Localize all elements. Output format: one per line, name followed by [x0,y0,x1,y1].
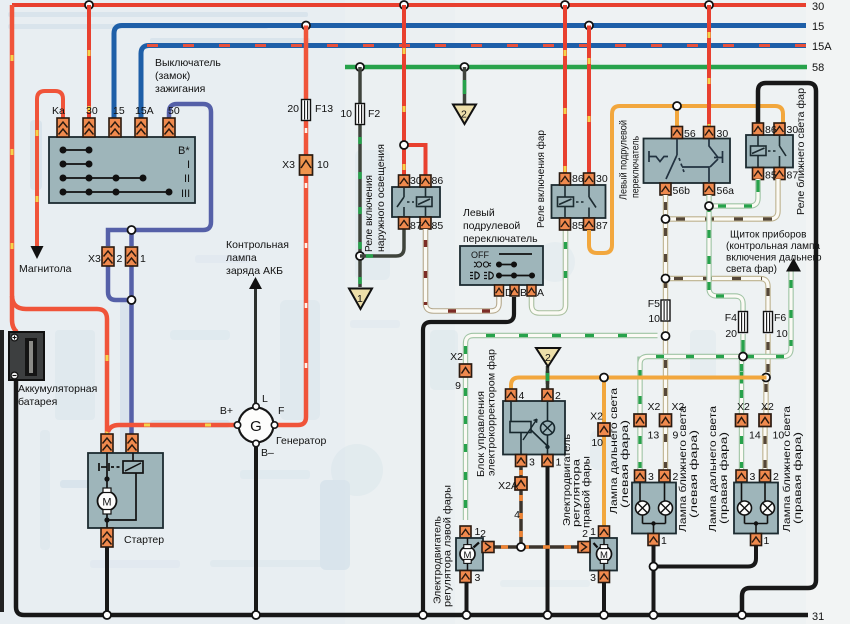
wire bus30 to relay 86 [563,5,567,173]
wire horizontal y356 to left lamp and indicator [640,271,791,364]
corrector pin 4 [506,389,517,401]
ext-light relay pin 87 [399,217,410,229]
connector X3 10 [300,155,313,175]
left lamp internal wires [640,483,666,534]
connector X2 10 [759,414,771,427]
wire between motor pins 2 (dark with orange dashes) [494,545,579,549]
bus 15 [114,26,806,119]
left motor box [456,538,483,571]
svg-text:F2: F2 [368,108,380,120]
svg-text:85: 85 [765,170,777,182]
svg-text:2: 2 [555,390,561,402]
wire generator B+ to starter [108,425,236,432]
battery plus terminal [11,334,18,341]
low beam relay pin 85 [753,168,764,180]
left lamp pin 3 [635,470,646,482]
headlight relay pin 30 [584,173,595,185]
wire generator L to charge lamp [254,289,257,403]
svg-text:Реле включения фар: Реле включения фар [535,130,547,228]
starter solenoid contact [99,463,122,471]
svg-text:50: 50 [168,105,180,117]
generator circle [239,408,274,443]
svg-text:A: A [537,287,544,299]
ignition contact row B* [60,147,171,194]
svg-text:30: 30 [596,173,608,185]
svg-text:D: D [505,287,513,299]
svg-text:Реле ближнего света фар: Реле ближнего света фар [795,88,807,215]
node bus30 pin30 [85,1,93,9]
right lamp bulb high beam [738,501,752,515]
svg-text:20: 20 [725,328,737,340]
wire 56a branch to low beam relay 85 [709,179,758,206]
scan page edge [0,330,4,612]
svg-text:30: 30 [717,128,729,140]
node bus58 F2 [356,63,364,71]
low beam relay pin 30 [774,123,785,135]
wire 50 loop (indigo) [108,104,211,246]
wire branch to relay 87 [360,228,404,256]
left motor pin3 connector [460,571,471,583]
node X3 top [128,226,136,234]
headlight relay internals [558,186,597,218]
corrector box [503,401,565,455]
ignition switch pin 15A [135,118,147,137]
starter pin 1 (battery) [101,434,113,453]
left motor pin2 connector [482,542,494,553]
ignition switch pin 30 [83,118,95,137]
starter solenoid coil [123,461,143,473]
svg-text:лампа: лампа [226,252,257,264]
node bus30 dimmer [705,1,713,9]
connector X3 pin 2 [102,247,114,266]
right motor pin3 connector [599,571,610,583]
svg-text:X2: X2 [737,401,750,413]
connector X2 9 left [460,364,472,377]
corrector pin 3 [516,455,527,467]
wire bus30 to dimmer 30 [707,5,711,126]
svg-text:1: 1 [590,526,596,538]
fuse F2 [356,104,365,125]
svg-text:Магнитола: Магнитола [19,263,72,275]
svg-text:86: 86 [765,124,777,136]
wire bus30 to ext-light relay [400,1,408,9]
right lamp pin 3 [736,470,747,482]
battery body [9,332,44,380]
svg-text:III: III [181,188,190,200]
dimmer switch pin 56b [660,183,671,195]
wire generator B- to ground [254,446,258,613]
battery minus terminal [11,372,18,379]
svg-text:85: 85 [432,220,444,232]
svg-text:зажигания: зажигания [155,83,205,95]
corrector pin 1 [542,455,553,467]
fuse F5 [661,300,670,321]
ext-light relay internals [397,188,432,217]
right lamp pin 2 [760,470,771,482]
left lamp box [632,483,676,534]
svg-text:30: 30 [86,105,98,117]
svg-text:F13: F13 [315,103,333,115]
faint bleed-through texture (decorative) [8,12,716,587]
svg-text:15: 15 [113,105,125,117]
node bus15 F13 [302,22,310,30]
svg-text:Ka: Ka [52,105,65,117]
svg-text:30: 30 [787,124,799,136]
wire Ka to Magnitola [37,91,63,246]
wire F4 bottom to node [740,334,745,357]
node bus30 headlight relay [561,1,569,9]
light switch pin A [527,285,536,296]
svg-text:(правая фара): (правая фара) [792,432,804,524]
svg-text:Левый подрулевой: Левый подрулевой [618,120,630,200]
svg-text:Левый: Левый [463,207,495,219]
svg-text:G: G [250,418,262,435]
wire F5 node left to X2-9 and left motor pin1 [466,336,658,521]
svg-text:2: 2 [773,471,779,483]
ignition switch pin 50 [163,118,175,137]
wire 56b branch to relay 87 [666,179,779,219]
svg-text:20: 20 [287,103,299,115]
wire battery minus to ground bus [16,378,808,615]
wire bus58 through F2 down to triangle 1 [358,67,362,287]
svg-text:электрокорректором фар: электрокорректором фар [486,349,498,476]
svg-text:1: 1 [140,253,146,265]
headlight relay box [552,185,606,218]
wire black: relay 86 up over and down right edge to ground [742,83,816,613]
svg-text:(контрольная лампа: (контрольная лампа [726,241,820,252]
svg-text:правой фары: правой фары [581,456,593,528]
bus 58 [345,65,807,70]
svg-text:30: 30 [812,1,824,13]
svg-text:87: 87 [410,220,422,232]
svg-text:13: 13 [648,430,660,442]
ignition switch pin Ka [57,118,69,137]
svg-text:II: II [184,173,190,185]
node bus58 triangle2 [461,63,469,71]
headlight relay pin 86 [560,173,571,185]
right motor pin1 connector [599,526,610,538]
svg-text:X2A: X2A [498,480,518,492]
svg-text:F4: F4 [725,312,737,324]
wire ignition pin 30 [87,5,91,118]
wire triangle2 to corrector pin2 [546,366,550,389]
wire amber: relay87 over to low-beam relay 30 [589,106,783,253]
svg-text:3: 3 [648,471,654,483]
node 56a relay85 [705,202,713,210]
right lamp bulb low beam [761,501,775,515]
arrow to magnitola [31,246,44,259]
node F4 bottom [739,353,747,361]
svg-text:86: 86 [432,175,444,187]
corrector internals [510,401,548,455]
left lamp bulb high beam [636,501,650,515]
wire 56b branch to F6 [666,279,769,378]
svg-text:переключатель: переключатель [463,233,538,245]
svg-text:58: 58 [812,62,824,74]
svg-text:Реле включения: Реле включения [363,175,375,252]
svg-text:регулятора лэвой фары: регулятора лэвой фары [442,485,454,607]
svg-text:X2: X2 [648,401,661,413]
svg-text:Стартер: Стартер [124,534,164,546]
svg-text:87: 87 [787,170,799,182]
arrow to charge lamp [249,277,262,289]
fuse F4 [739,312,748,333]
wire bus58 to triangle 2 [463,67,467,104]
svg-text:15A: 15A [812,41,832,53]
svg-text:включения дальнего: включения дальнего [726,253,822,264]
svg-text:света фар): света фар) [726,263,777,275]
connector X2 9 [660,414,672,427]
wire bus30 to battery and starter [12,5,107,434]
svg-text:10: 10 [317,159,329,171]
parking light icon [474,262,491,267]
wire 56a down then right to F4 [709,195,743,312]
starter bottom pin [101,528,113,547]
low beam relay box [746,135,793,168]
left motor M symbol [467,538,469,570]
node X3 bottom [128,296,136,304]
svg-text:M: M [102,497,111,509]
generator terminals [253,403,259,409]
starter pin 2 (solenoid) [126,434,138,453]
svg-text:заряда АКБ: заряда АКБ [226,265,283,277]
svg-text:56b: 56b [673,185,691,197]
svg-text:14: 14 [749,430,761,442]
node amber joins F6 wire [762,374,770,382]
svg-text:Генератор: Генератор [276,435,326,447]
svg-text:B–: B– [261,447,274,459]
light switch box [460,246,543,285]
svg-text:батарея: батарея [18,396,57,408]
right lamp internal wires [742,483,768,534]
svg-text:B: B [520,287,527,299]
svg-text:I: I [187,159,190,171]
svg-text:4: 4 [514,509,520,521]
starter box [88,453,163,528]
wire amber X2-10 column to right motor pin1 [602,378,606,527]
node F2 branch [356,252,364,260]
svg-text:9: 9 [455,380,461,392]
headlight icon [470,272,493,279]
svg-text:2: 2 [545,352,551,364]
wire left lamp ground [652,546,656,613]
left lamp pin 2 [659,470,670,482]
svg-text:X3: X3 [282,159,295,171]
svg-text:2: 2 [673,471,679,483]
wire 56b down through F5 to left lamp pin2 [663,195,668,470]
left motor pin1 connector [460,526,471,538]
connector X3 pin 1 [126,247,138,266]
svg-text:F: F [278,405,284,417]
svg-text:4: 4 [519,390,525,402]
light switch pin B [510,285,519,296]
wire X2-13 column to left lamp pin3 [637,364,642,470]
low beam relay internals [751,136,787,167]
svg-text:Контрольная: Контрольная [226,239,289,251]
svg-text:(замок): (замок) [155,70,190,82]
svg-text:15: 15 [812,21,824,33]
wire corrector pin1 to ground [546,467,550,614]
right lamp bottom pin [751,534,762,546]
right motor M symbol [603,538,605,570]
connector X2 14 [736,414,748,427]
nodes on 56b wire [662,215,670,223]
svg-text:F6: F6 [774,312,786,324]
svg-text:10: 10 [591,437,603,449]
svg-text:(правая фара): (правая фара) [718,432,730,524]
light switch pin D [495,285,504,296]
svg-text:2: 2 [461,109,467,121]
left lamp bulb low beam [659,501,673,515]
svg-text:L: L [262,393,268,405]
ignition switch box [49,137,195,203]
svg-text:Щиток приборов: Щиток приборов [730,229,806,241]
wire right motor ground [602,583,606,614]
svg-text:30: 30 [410,175,422,187]
wire bus15 to F13 to generator F [277,26,306,426]
ext-light relay pin 30 [399,175,410,187]
wire overlay triangle2 wire over amber [546,371,550,384]
svg-text:X2: X2 [450,351,463,363]
svg-text:B+: B+ [220,405,233,417]
svg-text:86: 86 [572,173,584,185]
node relay coil branch [404,145,426,175]
wire amber corrector pin4 / X2-10 / F6-node [511,378,767,390]
svg-text:15A: 15A [135,105,154,117]
wire crossing overlay X2-14 over amber [740,371,743,384]
svg-text:3: 3 [529,457,535,469]
svg-text:10: 10 [340,108,352,120]
ext-light relay pin 86 [420,175,431,187]
svg-text:31: 31 [812,611,824,623]
right lamp box [734,483,778,534]
svg-text:(левая фара): (левая фара) [619,420,631,508]
connector X2 13 [634,414,646,427]
triangle connector 1 [349,289,372,310]
svg-text:85: 85 [572,220,584,232]
svg-text:56: 56 [684,128,696,140]
fuse F13 [302,100,311,121]
node amber to pin 56 [675,106,679,126]
svg-text:3: 3 [590,572,596,584]
indicator arrow (Shchitok priborov) [786,258,801,272]
svg-text:87: 87 [596,220,608,232]
left lamp bottom pin [648,534,659,546]
svg-text:B*: B* [178,145,190,157]
starter motor [98,492,117,511]
svg-text:1: 1 [764,535,770,547]
triangle connector 2 top [453,105,476,125]
wire switch A to headlight relay 85 (white/green) [532,230,566,313]
wire ext-light relay 85 to switch D (white/maroon) [426,229,500,311]
bus 15A [141,46,806,119]
dimmer box [644,139,731,184]
connector X2 10 (amber column) [598,423,610,436]
svg-text:Выключатель: Выключатель [155,57,221,69]
svg-text:Аккумуляторная: Аккумуляторная [18,383,97,395]
svg-text:X2: X2 [761,401,774,413]
wire F6 X2-10 to right lamp pin2 [765,378,766,471]
svg-text:X3: X3 [88,253,101,265]
svg-text:3: 3 [475,572,481,584]
svg-text:наружного освещения: наружного освещения [375,144,387,252]
svg-text:X2: X2 [590,411,603,423]
node below F5 [662,332,670,340]
wire below X3 to starter pin2 [108,266,132,434]
svg-text:1: 1 [357,293,363,305]
svg-text:F5: F5 [648,298,660,310]
dimmer switch pin 56a [704,183,715,195]
ext-light relay pin 85 [420,217,431,229]
svg-text:10: 10 [776,328,788,340]
svg-text:переключатель: переключатель [630,136,642,198]
low beam relay pin 86 [753,123,764,135]
wire starter to ground [105,547,109,613]
svg-text:10: 10 [648,313,660,325]
wire bus15 to relay 30 [587,26,591,174]
svg-text:56a: 56a [717,185,735,197]
right motor box [590,538,617,571]
connector X2A [515,477,527,490]
triangle connector 2 lower [536,348,560,367]
corrector pin 2 [542,389,553,401]
wire X2-14 column to right lamp pin3 [739,357,744,471]
bus 30 [12,3,806,7]
node bus15 headlight relay [585,22,593,30]
svg-text:3: 3 [750,471,756,483]
svg-text:OFF: OFF [471,250,489,260]
svg-text:2: 2 [582,528,588,540]
ext-light relay box [392,187,440,217]
starter internal wires [107,453,136,529]
low beam relay pin 87 [774,168,785,180]
svg-text:подрулевой: подрулевой [463,220,520,232]
ground bus nodes [103,611,111,619]
svg-text:2: 2 [117,253,123,265]
wire left motor ground [465,583,469,614]
svg-text:1: 1 [661,535,667,547]
headlight relay pin 85 [560,218,571,230]
svg-text:2: 2 [480,528,486,540]
wire corrector pin3 via X2A to motors-2 wire [519,467,523,548]
fuse F6 [764,312,773,333]
wire switch B to ground (black) [423,297,514,613]
headlight relay pin 87 [584,218,595,230]
dimmer internals [649,139,723,184]
dimmer switch pin 56 [672,127,683,139]
ignition switch pin 15 [109,118,121,137]
svg-text:(левая фара): (левая фара) [688,430,700,518]
right motor pin2 connector [578,542,590,553]
dimmer switch pin 30 [704,127,715,139]
